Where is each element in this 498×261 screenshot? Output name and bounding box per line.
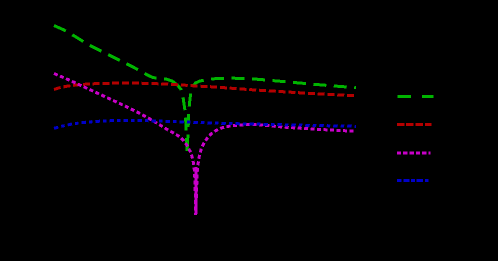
legend sample blue (397, 179, 429, 182)
legend sample magenta (397, 151, 431, 154)
curve red (medium-dash) (54, 83, 356, 96)
curve blue (dash-dot) (54, 121, 356, 129)
magenta notch bottom bar (194, 167, 197, 214)
legend sample red (397, 123, 432, 126)
curve green (long-dash), left part (54, 26, 177, 85)
curve green (long-dash), notch and right part (177, 78, 356, 153)
curve magenta (dotted-dash) (54, 74, 356, 216)
legend sample green (398, 95, 434, 98)
